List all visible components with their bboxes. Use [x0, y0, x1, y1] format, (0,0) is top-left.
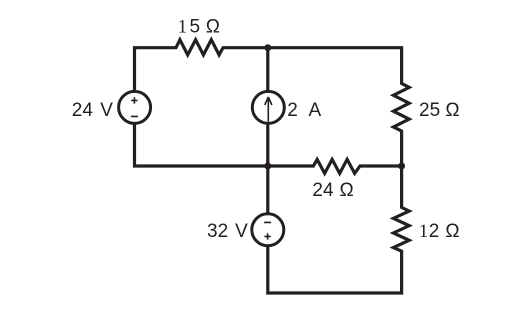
svg-text:15Ω: 15Ω [178, 17, 220, 38]
svg-text:12Ω: 12Ω [419, 221, 460, 242]
svg-text:32 V: 32 V [207, 221, 248, 242]
svg-text:24 Ω: 24 Ω [312, 180, 353, 201]
svg-text:25 Ω: 25 Ω [419, 100, 460, 121]
svg-text:24 V: 24 V [72, 100, 113, 121]
